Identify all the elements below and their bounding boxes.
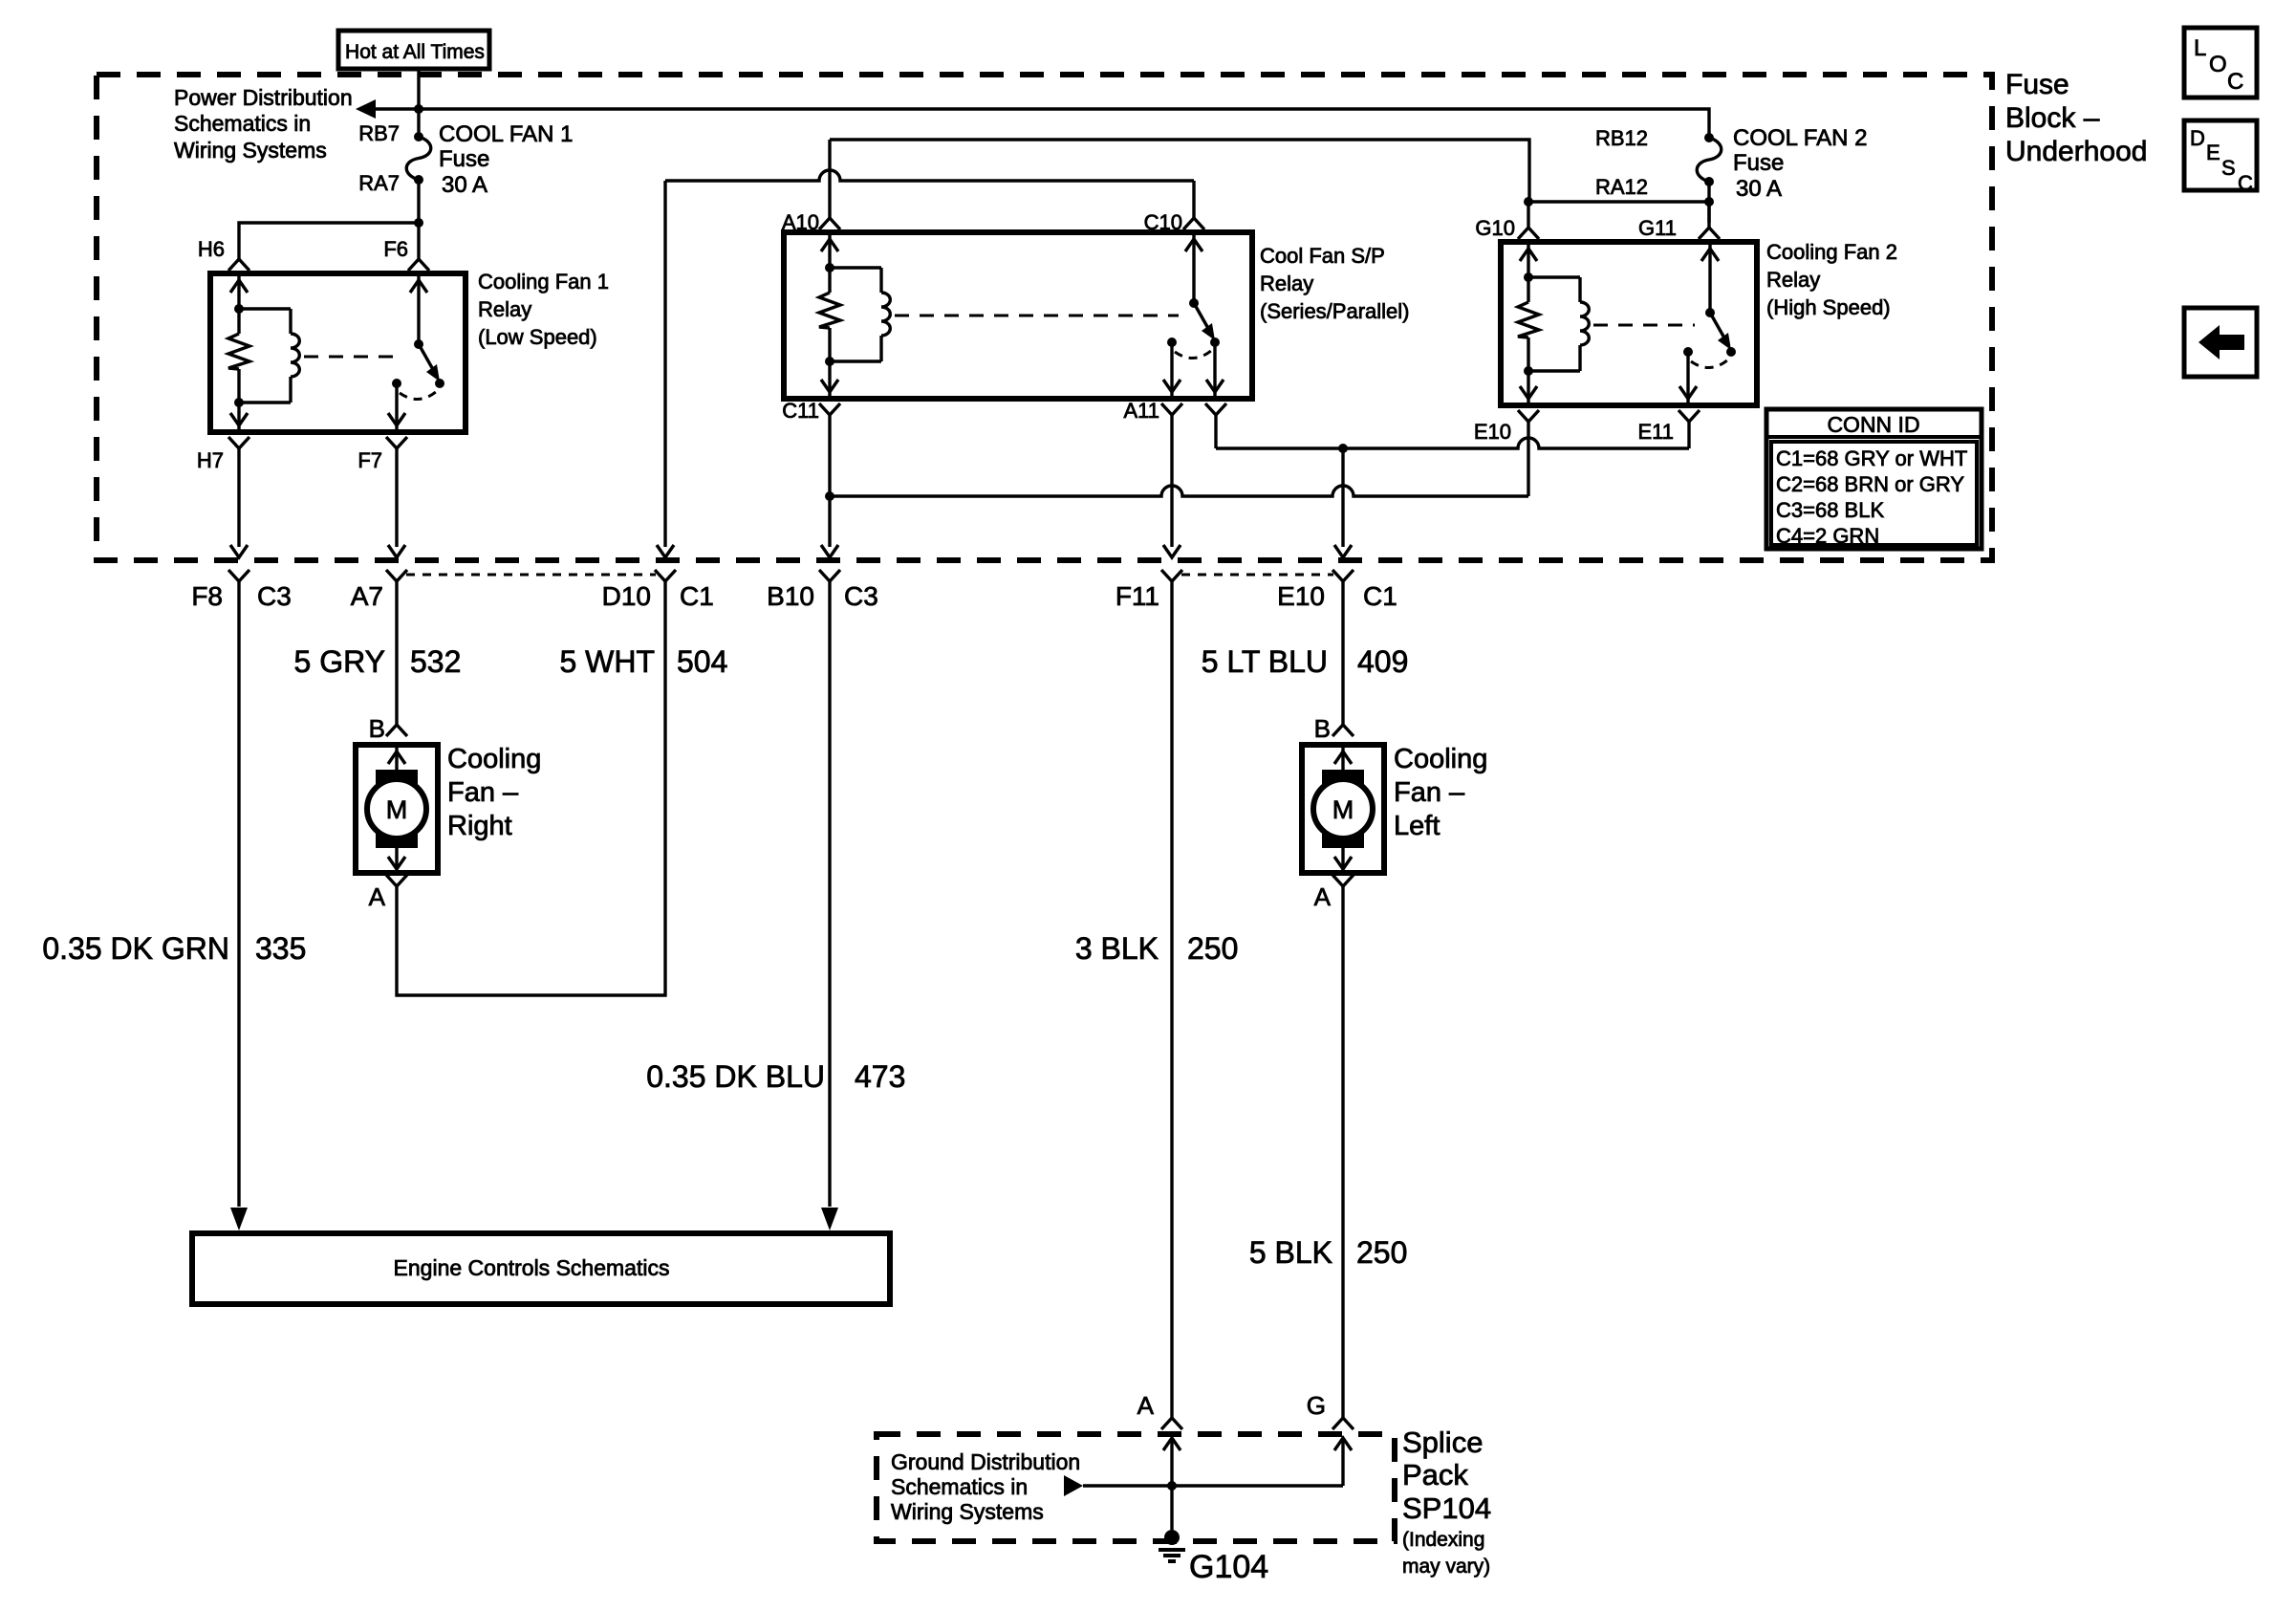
- svg-text:Relay: Relay: [1766, 268, 1820, 292]
- svg-text:COOL FAN 1: COOL FAN 1: [439, 121, 573, 147]
- box: Engine Controls Schematics: [192, 1233, 890, 1304]
- svg-text:RA7: RA7: [358, 171, 400, 195]
- svg-text:G11: G11: [1638, 216, 1677, 240]
- connector F6: [408, 259, 429, 271]
- motor M1 Cooling Fan - Right: [356, 745, 438, 873]
- wire: hot feed from Hot at All Times: [417, 69, 420, 137]
- svg-text:30 A: 30 A: [1736, 176, 1782, 202]
- icon box: LOC: [2184, 28, 2257, 98]
- connector splice A: [1161, 1418, 1182, 1429]
- wire: E11 riser: [1687, 422, 1690, 448]
- wire: circuit 250 (F11 to splice A): [1170, 581, 1173, 1418]
- svg-text:Underhood: Underhood: [2005, 136, 2147, 167]
- svg-text:C3: C3: [257, 581, 292, 611]
- svg-text:F11: F11: [1116, 581, 1159, 611]
- svg-text:504: 504: [677, 644, 727, 679]
- connector E11 (relay K3): [1679, 410, 1700, 422]
- svg-text:B: B: [369, 714, 385, 743]
- svg-text:Ground Distribution: Ground Distribution: [891, 1449, 1080, 1474]
- svg-text:335: 335: [255, 931, 306, 966]
- svg-text:250: 250: [1187, 931, 1238, 966]
- svg-text:A11: A11: [1123, 399, 1159, 423]
- connector H7: [228, 437, 249, 448]
- wire: branch to F6: [417, 223, 420, 259]
- svg-text:Fuse: Fuse: [1733, 150, 1784, 176]
- wire: circuit 473 (B10 to engine controls): [828, 581, 831, 1207]
- wire: fuse 2 output: [1707, 182, 1710, 223]
- splice pack dashed boundary SP104: [877, 1434, 1395, 1541]
- node: C11 junction: [825, 491, 834, 501]
- svg-text:M: M: [386, 795, 408, 824]
- svg-text:5 BLK: 5 BLK: [1249, 1235, 1332, 1270]
- icon box: DESC: [2184, 120, 2257, 190]
- wire: fuse 1 output: [417, 180, 420, 223]
- connector A11: [1161, 403, 1182, 415]
- svg-text:B10: B10: [767, 581, 814, 611]
- wire: H7 down to border: [237, 448, 240, 547]
- node: G10 junction: [1524, 197, 1533, 207]
- svg-text:SP104: SP104: [1402, 1491, 1491, 1525]
- svg-text:D10: D10: [602, 581, 651, 611]
- svg-text:A: A: [1314, 882, 1332, 911]
- connector F11: [1161, 570, 1182, 581]
- motor M2 Cooling Fan - Left: [1302, 745, 1384, 873]
- wire: circuit 504 column (D10 to fan right A): [397, 581, 665, 995]
- svg-text:Relay: Relay: [478, 297, 531, 321]
- svg-text:E11: E11: [1637, 420, 1674, 444]
- connector F8 / C3: [228, 570, 249, 581]
- svg-text:H6: H6: [198, 237, 225, 261]
- connector: fan right B: [386, 725, 407, 736]
- node: fuse 1 output junction: [414, 218, 423, 228]
- table: CONN ID: [1766, 409, 1982, 549]
- svg-text:RA12: RA12: [1595, 175, 1648, 199]
- svg-text:A: A: [1137, 1391, 1155, 1420]
- svg-text:250: 250: [1356, 1235, 1407, 1270]
- connector H6: [228, 259, 249, 271]
- svg-text:5 WHT: 5 WHT: [559, 644, 655, 679]
- relay K1 Cooling Fan 1 (Low Speed): [210, 273, 466, 432]
- wire: hot bus to COOL FAN 2 fuse: [375, 109, 1709, 137]
- svg-text:Right: Right: [447, 811, 512, 841]
- svg-text:C1: C1: [680, 581, 714, 611]
- wire: splice A branch: [1163, 1438, 1180, 1450]
- wire: G10 rail: [1528, 200, 1709, 203]
- svg-text:D: D: [2190, 126, 2205, 150]
- svg-text:Power Distribution: Power Distribution: [174, 85, 353, 110]
- svg-text:C1: C1: [1363, 581, 1397, 611]
- link: F11-E10 same connector: [1181, 574, 1333, 577]
- svg-text:C2=68 BRN or GRY: C2=68 BRN or GRY: [1776, 472, 1964, 496]
- connector splice G: [1332, 1418, 1354, 1429]
- svg-text:C11: C11: [782, 399, 819, 423]
- svg-text:Fan –: Fan –: [447, 777, 519, 808]
- link: A7-D10 same connector: [406, 574, 656, 577]
- wire: C10 drop: [1192, 181, 1195, 218]
- svg-text:RB12: RB12: [1595, 126, 1648, 150]
- wire: splice bus: [1083, 1484, 1343, 1487]
- svg-text:Schematics in: Schematics in: [891, 1474, 1028, 1499]
- wire: circuit 409 (E10 to fan left B): [1341, 581, 1344, 725]
- wire: K2 arm pin to E11 rail with hop over E10 wire: [1214, 415, 1217, 448]
- connector K2 arm pin: [1205, 403, 1226, 415]
- svg-text:C3: C3: [844, 581, 878, 611]
- svg-text:Cooling Fan 1: Cooling Fan 1: [478, 270, 609, 294]
- connector C11: [819, 403, 840, 415]
- svg-text:409: 409: [1357, 644, 1408, 679]
- node: E10 column junction: [1338, 444, 1348, 453]
- wire: D10 to C10 rail with hop over A10: [665, 170, 1194, 181]
- connector D10 / C1: [655, 570, 676, 581]
- svg-text:Fuse: Fuse: [439, 146, 489, 172]
- relay K2 Cool Fan S/P (Series/Parallel): [784, 232, 1252, 399]
- svg-text:E: E: [2206, 141, 2220, 164]
- svg-text:(Low Speed): (Low Speed): [478, 325, 597, 349]
- wire: branch to H6: [239, 223, 419, 259]
- arrow: to ground distribution: [1064, 1475, 1083, 1496]
- connector: fan left B: [1332, 725, 1354, 736]
- wire: splice G branch: [1334, 1438, 1352, 1450]
- svg-text:O: O: [2209, 52, 2227, 77]
- ground G104: [1164, 1530, 1180, 1545]
- svg-text:Block –: Block –: [2005, 102, 2100, 134]
- svg-text:H7: H7: [197, 448, 224, 472]
- svg-text:3 BLK: 3 BLK: [1075, 931, 1159, 966]
- svg-text:30 A: 30 A: [442, 172, 487, 198]
- svg-text:Cool Fan S/P: Cool Fan S/P: [1260, 244, 1385, 268]
- svg-text:C: C: [2227, 69, 2243, 95]
- svg-text:may vary): may vary): [1402, 1556, 1490, 1578]
- svg-text:M: M: [1332, 795, 1354, 824]
- icon box: back arrow: [2184, 308, 2257, 377]
- connector C10: [1183, 218, 1204, 229]
- wire: C11 column drop: [828, 415, 831, 547]
- power label: Hot at All Times: [338, 31, 489, 69]
- fuse COOL FAN 1 30 A: [414, 132, 423, 142]
- svg-text:473: 473: [855, 1059, 905, 1094]
- svg-text:G10: G10: [1475, 216, 1515, 240]
- wire: C11 to K3-E10 rail with hops: [1527, 422, 1529, 496]
- svg-text:G104: G104: [1189, 1549, 1268, 1585]
- svg-text:Splice: Splice: [1402, 1426, 1483, 1459]
- node: hot bus junction: [414, 104, 423, 114]
- svg-text:A7: A7: [351, 581, 383, 611]
- svg-text:Cooling Fan 2: Cooling Fan 2: [1766, 240, 1897, 264]
- svg-text:0.35 DK BLU: 0.35 DK BLU: [646, 1059, 825, 1094]
- svg-text:Relay: Relay: [1260, 272, 1313, 295]
- connector: fan right A: [386, 875, 407, 886]
- svg-text:Cooling: Cooling: [1394, 744, 1487, 774]
- node: splice junction: [1167, 1481, 1177, 1491]
- svg-text:532: 532: [410, 644, 461, 679]
- svg-text:CONN ID: CONN ID: [1827, 412, 1919, 437]
- svg-text:COOL FAN 2: COOL FAN 2: [1733, 125, 1867, 151]
- svg-text:C4=2 GRN: C4=2 GRN: [1776, 524, 1879, 548]
- svg-text:0.35 DK GRN: 0.35 DK GRN: [42, 931, 229, 966]
- svg-text:C: C: [2238, 171, 2253, 195]
- svg-text:(High Speed): (High Speed): [1766, 295, 1891, 319]
- wire: circuit 532 (A7 to fan right B): [395, 581, 398, 725]
- svg-text:5 LT BLU: 5 LT BLU: [1202, 644, 1328, 679]
- svg-text:Cooling: Cooling: [447, 744, 541, 774]
- wire: horizontal feed to S/P relay coil (A10 from fuse2 rail): [830, 140, 1529, 202]
- connector G10: [1518, 228, 1539, 239]
- svg-text:(Series/Parallel): (Series/Parallel): [1260, 299, 1410, 323]
- wire: circuit 335 (F8 to engine controls): [237, 581, 240, 1207]
- connector B10 / C3: [819, 570, 840, 581]
- wire: G10 drop: [1527, 202, 1529, 228]
- svg-text:Wiring Systems: Wiring Systems: [891, 1499, 1044, 1524]
- svg-text:A: A: [369, 882, 386, 911]
- svg-text:C1=68 GRY or WHT: C1=68 GRY or WHT: [1776, 446, 1967, 470]
- wire: E10 column drop: [1341, 448, 1344, 547]
- svg-text:Hot at All Times: Hot at All Times: [345, 41, 485, 63]
- svg-text:Schematics in: Schematics in: [174, 111, 311, 136]
- svg-text:F6: F6: [383, 237, 408, 261]
- svg-text:Pack: Pack: [1402, 1458, 1468, 1491]
- svg-text:RB7: RB7: [358, 121, 400, 145]
- node: G11 junction: [1704, 197, 1714, 207]
- wire: F7 down to border: [395, 448, 398, 547]
- wire: A11 column drop: [1170, 415, 1173, 547]
- svg-text:L: L: [2194, 35, 2206, 61]
- svg-text:Fuse: Fuse: [2005, 69, 2069, 100]
- fuse block dashed boundary (Fuse Block - Underhood): [97, 75, 1992, 560]
- svg-text:E10: E10: [1277, 581, 1325, 611]
- svg-text:Fan –: Fan –: [1394, 777, 1465, 808]
- svg-text:B: B: [1314, 714, 1331, 743]
- wire: A10 drop: [828, 140, 831, 218]
- connector E10 (relay K3): [1518, 410, 1539, 422]
- connector: fan left A: [1332, 875, 1354, 886]
- svg-text:Engine Controls Schematics: Engine Controls Schematics: [394, 1255, 670, 1280]
- connector A7: [386, 570, 407, 581]
- wire: D10 column drop: [663, 181, 666, 547]
- svg-text:Left: Left: [1394, 811, 1440, 841]
- svg-text:Wiring Systems: Wiring Systems: [174, 138, 327, 163]
- svg-text:E10: E10: [1474, 420, 1511, 444]
- arrow: to power distribution (left): [356, 99, 376, 119]
- connector E10 / C1: [1332, 570, 1354, 581]
- svg-text:F7: F7: [357, 448, 382, 472]
- connector F7: [386, 437, 407, 448]
- svg-text:S: S: [2221, 156, 2236, 180]
- relay K3 Cooling Fan 2 (High Speed): [1501, 242, 1757, 405]
- wire: G11 drop: [1707, 202, 1710, 228]
- svg-text:F8: F8: [191, 581, 223, 611]
- svg-text:5 GRY: 5 GRY: [294, 644, 385, 679]
- svg-text:G: G: [1307, 1391, 1326, 1420]
- svg-text:(Indexing: (Indexing: [1402, 1529, 1484, 1551]
- svg-text:C3=68 BLK: C3=68 BLK: [1776, 498, 1884, 522]
- wire: circuit 250 (fan left A to splice G): [1341, 886, 1344, 1418]
- fuse COOL FAN 2 30 A: [1704, 133, 1714, 142]
- connector A10: [819, 218, 840, 229]
- connector G11: [1699, 228, 1720, 239]
